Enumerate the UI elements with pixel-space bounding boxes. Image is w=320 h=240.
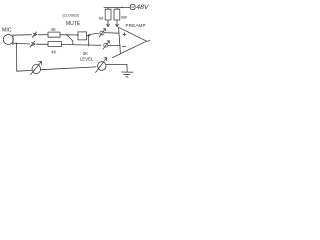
minus input mark bbox=[123, 45, 126, 47]
wire top terminal bbox=[13, 34, 31, 37]
ground wire from mic down bbox=[16, 44, 18, 72]
microphone MIC1 bbox=[3, 35, 13, 45]
wire bbox=[89, 44, 101, 46]
terminal +48V bbox=[129, 6, 131, 8]
bottom rail bbox=[41, 67, 96, 70]
wire to - input bbox=[108, 44, 120, 46]
wire+arrow down (right) bbox=[116, 20, 118, 25]
svg-text:4K: 4K bbox=[51, 27, 56, 32]
svg-text:MUTE: MUTE bbox=[66, 21, 81, 27]
component box bbox=[78, 32, 87, 40]
wire bbox=[37, 43, 49, 45]
connector arrow (top line) bbox=[32, 32, 36, 38]
svg-text:LEVEL: LEVEL bbox=[80, 56, 94, 61]
wire to + input bbox=[105, 32, 119, 35]
bottom rail bbox=[106, 63, 127, 65]
capacitor (bottom, into - input) bbox=[104, 43, 108, 47]
resistor 68K (right phantom) bbox=[116, 8, 118, 10]
resistor 4K (top) bbox=[48, 32, 60, 37]
pot 5K LEVEL (on rail) bbox=[98, 62, 106, 71]
connector arrow (bottom line) bbox=[30, 41, 34, 47]
wire to coupling cap bbox=[89, 33, 99, 34]
wire+arrow down (left) bbox=[107, 20, 109, 25]
switch MUTE lever bbox=[67, 35, 73, 41]
svg-text:PREAMP: PREAMP bbox=[126, 23, 146, 28]
output wire bbox=[147, 40, 150, 43]
plus input mark bbox=[123, 33, 126, 36]
svg-text:68K: 68K bbox=[121, 15, 128, 19]
wire bbox=[87, 35, 90, 37]
svg-text:MIC: MIC bbox=[2, 28, 12, 34]
pot (left, on rail) bbox=[32, 64, 41, 73]
capacitor (top, into + input) bbox=[100, 31, 104, 35]
svg-text:48V: 48V bbox=[136, 4, 150, 11]
op-amp U1 bbox=[119, 27, 121, 53]
wire bbox=[62, 44, 89, 47]
junction bbox=[88, 35, 90, 37]
wire down to lower line bbox=[88, 36, 90, 46]
resistor 68K (left phantom) bbox=[107, 8, 109, 10]
wire lower terminal bbox=[13, 42, 17, 44]
junction on rail bbox=[121, 7, 122, 8]
wire bbox=[17, 43, 30, 46]
resistor 4K (bottom) bbox=[48, 42, 62, 47]
junction bbox=[66, 34, 68, 36]
svg-text:5K: 5K bbox=[83, 51, 88, 56]
wire bbox=[60, 34, 78, 36]
ground bbox=[126, 64, 128, 71]
+48V rail bbox=[104, 6, 129, 8]
wire bbox=[39, 34, 49, 36]
svg-text:4K: 4K bbox=[51, 50, 56, 55]
bottom rail bbox=[17, 69, 32, 72]
svg-text:(CLOSED): (CLOSED) bbox=[63, 14, 80, 18]
svg-text:68: 68 bbox=[99, 16, 103, 21]
junction bbox=[16, 43, 17, 44]
